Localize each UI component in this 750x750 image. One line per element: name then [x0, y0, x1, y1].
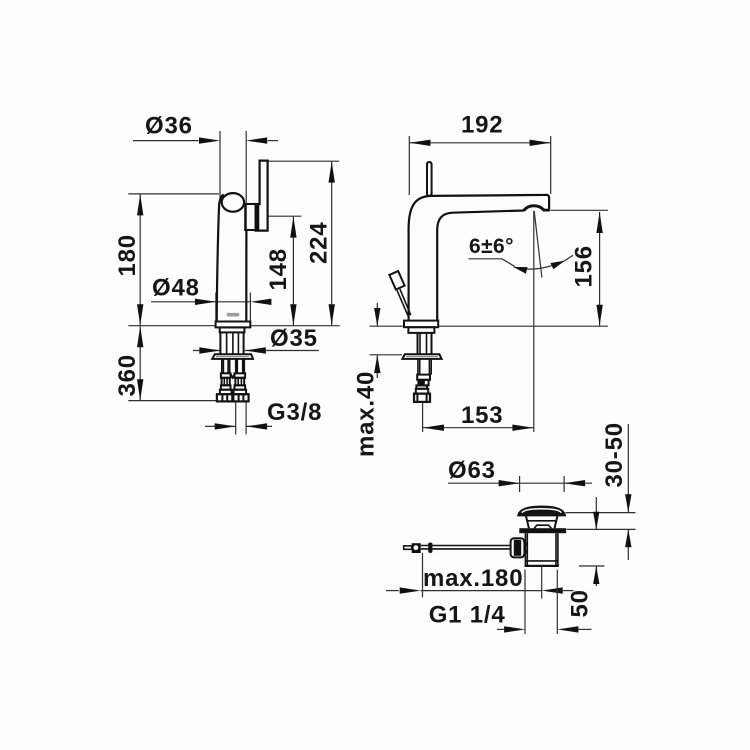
- svg-text:148: 148: [265, 248, 292, 290]
- svg-text:50: 50: [567, 589, 594, 617]
- svg-text:Ø35: Ø35: [270, 325, 318, 352]
- svg-text:224: 224: [306, 222, 333, 264]
- svg-text:Ø36: Ø36: [145, 113, 193, 140]
- svg-text:180: 180: [114, 234, 141, 276]
- svg-text:G1 1/4: G1 1/4: [429, 602, 506, 629]
- svg-text:192: 192: [461, 112, 503, 139]
- svg-text:Ø63: Ø63: [448, 457, 496, 484]
- svg-text:max.40: max.40: [352, 371, 379, 457]
- svg-text:G3/8: G3/8: [267, 399, 322, 426]
- svg-text:Ø48: Ø48: [152, 275, 200, 302]
- svg-text:30-50: 30-50: [601, 422, 628, 487]
- svg-text:max.180: max.180: [423, 565, 523, 592]
- svg-text:153: 153: [461, 402, 503, 429]
- svg-text:360: 360: [114, 354, 141, 396]
- svg-text:156: 156: [571, 245, 598, 287]
- svg-text:6±6°: 6±6°: [469, 235, 514, 258]
